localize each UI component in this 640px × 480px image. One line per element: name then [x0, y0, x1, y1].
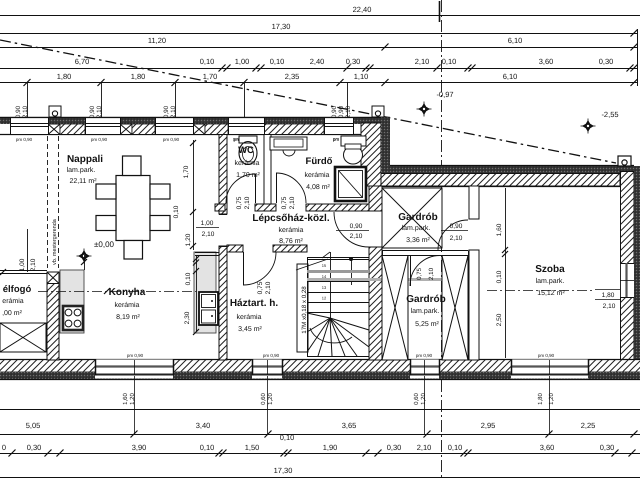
kitchen top edge lines near wall	[195, 252, 219, 254]
benchmark star -2,55	[581, 119, 596, 134]
svg-text:11,20: 11,20	[148, 36, 166, 45]
svg-text:15,12 m²: 15,12 m²	[537, 290, 565, 297]
svg-text:1,50: 1,50	[245, 443, 260, 452]
right edge extension line	[637, 29, 639, 86]
wall right of Nappali (x219)	[219, 135, 227, 215]
svg-text:2,10: 2,10	[30, 258, 37, 271]
svg-text:6,70: 6,70	[75, 57, 90, 66]
svg-text:2,10: 2,10	[289, 196, 296, 209]
walk line arc	[310, 328, 352, 343]
szoba dim line	[505, 188, 507, 358]
dimension chain row 4	[0, 68, 637, 70]
benchmark star -0,97	[417, 102, 432, 117]
svg-text:Fürdő: Fürdő	[306, 156, 333, 167]
stair side lines	[307, 257, 309, 356]
svg-text:14: 14	[322, 274, 327, 279]
svg-text:,00 m²: ,00 m²	[2, 310, 23, 317]
svg-text:kerámia: kerámia	[115, 301, 140, 309]
svg-text:kerámia: kerámia	[237, 313, 262, 321]
svg-text:0,75: 0,75	[416, 267, 423, 280]
dimension line 17,30 top	[0, 33, 637, 35]
svg-text:22,11 m²: 22,11 m²	[69, 178, 97, 185]
level star	[77, 249, 92, 264]
shower tray	[335, 167, 366, 201]
door size stack	[441, 230, 468, 232]
svg-text:17,30: 17,30	[274, 466, 293, 475]
left partial dim	[27, 229, 29, 272]
svg-text:2,10: 2,10	[428, 267, 435, 280]
svg-text:0,90: 0,90	[163, 105, 170, 118]
svg-text:0,30: 0,30	[600, 443, 615, 452]
svg-text:15: 15	[322, 263, 327, 268]
svg-text:0,60: 0,60	[260, 393, 267, 405]
svg-text:-2,55: -2,55	[601, 110, 618, 119]
svg-text:pm 0,90: pm 0,90	[91, 137, 108, 142]
svg-text:lam.park.: lam.park.	[402, 224, 431, 232]
svg-text:1,70: 1,70	[203, 72, 218, 81]
svg-text:1,20: 1,20	[420, 393, 427, 405]
door opening 1,00 in that wall	[219, 214, 227, 216]
svg-text:1,90: 1,90	[323, 443, 338, 452]
svg-text:1,20: 1,20	[267, 393, 274, 405]
svg-text:0,90: 0,90	[331, 105, 338, 118]
svg-text:2,10: 2,10	[603, 303, 616, 310]
svg-text:lam.park.: lam.park.	[411, 307, 440, 315]
door to Gardrob 3,36	[334, 212, 369, 247]
svg-text:3,65: 3,65	[342, 421, 357, 430]
dimension chain row 5	[0, 82, 637, 84]
svg-text:2,10: 2,10	[22, 105, 29, 118]
svg-text:élfogó: élfogó	[3, 284, 32, 295]
svg-text:5,05: 5,05	[26, 421, 41, 430]
timber posts in top wall	[48, 124, 60, 135]
door arc G336	[438, 220, 468, 250]
svg-text:0,10: 0,10	[173, 205, 180, 218]
svg-text:0,75: 0,75	[257, 281, 264, 294]
svg-text:Gardrób: Gardrób	[398, 212, 437, 223]
svg-text:0,10: 0,10	[200, 57, 215, 66]
WC toilet	[239, 136, 257, 143]
svg-text:0,30: 0,30	[599, 57, 614, 66]
svg-text:2,25: 2,25	[581, 421, 596, 430]
counter edge dim tick	[84, 255, 86, 270]
mestergerenda dashed beam lines	[47, 136, 49, 268]
svg-text:1,20: 1,20	[185, 233, 192, 246]
kitchen counters	[60, 270, 84, 333]
svg-text:2,10: 2,10	[96, 105, 103, 118]
svg-text:0,90: 0,90	[450, 223, 463, 230]
Konyha labels	[38, 291, 196, 293]
svg-text:0,30: 0,30	[387, 443, 402, 452]
stair east wall	[369, 186, 382, 211]
svg-text:5,25 m²: 5,25 m²	[415, 321, 439, 328]
konyha dim labels	[196, 255, 198, 332]
toilet	[341, 136, 366, 146]
Nappali/Szelfogo divider line	[0, 270, 47, 272]
svg-text:kerámia: kerámia	[279, 226, 304, 234]
svg-text:3,60: 3,60	[539, 57, 554, 66]
Furdo door	[276, 173, 278, 203]
bottom chain A	[0, 434, 640, 436]
svg-text:1,60: 1,60	[496, 223, 503, 236]
svg-text:Lépcsőház-közl.: Lépcsőház-közl.	[252, 213, 329, 224]
svg-text:0,10: 0,10	[280, 433, 295, 442]
stove	[63, 306, 83, 330]
sink	[199, 292, 218, 325]
section line vertical dash-dot	[441, 0, 443, 480]
dining table	[116, 176, 150, 241]
svg-text:pm 0,90: pm 0,90	[127, 353, 144, 358]
szoba window labels right	[595, 289, 620, 291]
svg-text:0,10: 0,10	[448, 443, 463, 452]
svg-text:0,10: 0,10	[200, 443, 215, 452]
Szelfogo closet with X	[0, 323, 46, 352]
washbasin	[270, 137, 307, 150]
svg-text:0,30: 0,30	[346, 57, 361, 66]
svg-text:13: 13	[322, 285, 327, 290]
svg-text:1,00: 1,00	[19, 258, 26, 271]
Gardrob 5,25 closets	[382, 256, 408, 361]
svg-text:1,80: 1,80	[57, 72, 72, 81]
downpipe symbol at NE corner of right wing	[618, 156, 631, 166]
svg-text:0,90: 0,90	[350, 223, 363, 230]
svg-text:2,10: 2,10	[170, 105, 177, 118]
svg-text:pm 0,90: pm 0,90	[538, 353, 555, 358]
nappali interior dim line	[193, 140, 195, 250]
downpipe symbol at NE corner of left wing	[372, 106, 384, 117]
stair label box 17M	[297, 264, 308, 352]
svg-text:±0,00: ±0,00	[94, 240, 115, 249]
right exterior wall	[621, 172, 635, 380]
bottom chain B	[0, 453, 640, 455]
svg-text:8,76 m²: 8,76 m²	[279, 238, 303, 245]
svg-text:1,60: 1,60	[122, 393, 129, 405]
dimension line 11,20 / 6,10	[0, 47, 637, 49]
svg-text:3,40: 3,40	[196, 421, 211, 430]
svg-text:0,10: 0,10	[442, 57, 457, 66]
svg-text:0,10: 0,10	[270, 57, 285, 66]
WC door	[255, 174, 257, 203]
svg-text:2,10: 2,10	[345, 105, 352, 118]
svg-text:2,30: 2,30	[184, 311, 191, 324]
svg-text:2,10: 2,10	[415, 57, 430, 66]
svg-text:2,40: 2,40	[310, 57, 325, 66]
dimension line 22,40	[0, 15, 640, 17]
svg-text:1,00: 1,00	[235, 57, 250, 66]
door 1,00/2,10 labels	[196, 227, 219, 229]
svg-text:22,40: 22,40	[353, 5, 372, 14]
door to Haztart	[243, 252, 245, 285]
svg-text:0,90: 0,90	[89, 105, 96, 118]
svg-text:0,75: 0,75	[281, 196, 288, 209]
svg-text:pm 0,90: pm 0,90	[263, 353, 280, 358]
svg-text:3,45 m²: 3,45 m²	[238, 326, 262, 333]
chairs	[123, 156, 142, 176]
svg-text:0,90: 0,90	[15, 105, 22, 118]
windows in bottom wall	[95, 360, 173, 379]
svg-text:lam.park.: lam.park.	[67, 166, 96, 174]
bottom line 17,30	[0, 477, 640, 479]
svg-text:Nappali: Nappali	[67, 154, 103, 165]
svg-text:4,08 m²: 4,08 m²	[306, 184, 330, 191]
Gardrob/Szoba wall	[469, 186, 479, 219]
stair break line	[296, 259, 328, 270]
extension lines below wall	[134, 376, 136, 434]
svg-text:1,10: 1,10	[354, 72, 369, 81]
svg-text:0: 0	[2, 443, 6, 452]
svg-text:0,10: 0,10	[496, 270, 503, 283]
svg-text:pm 0,90: pm 0,90	[16, 137, 33, 142]
bottom line y409	[0, 409, 640, 411]
gray level lines over stairs	[307, 270, 369, 273]
svg-text:2,10: 2,10	[417, 443, 432, 452]
stair treads	[307, 257, 369, 259]
svg-text:6,10: 6,10	[508, 36, 523, 45]
Gardrob divider wall y250	[382, 250, 468, 252]
windows in top wall	[10, 118, 48, 135]
svg-text:2,10: 2,10	[450, 235, 463, 242]
door in divider	[410, 256, 412, 287]
svg-text:Szoba: Szoba	[535, 264, 565, 275]
svg-text:17,30: 17,30	[272, 22, 291, 31]
szoba center dash-dot	[487, 290, 592, 292]
wall between Szelfogo and Konyha	[47, 272, 59, 284]
svg-text:-0,97: -0,97	[436, 90, 453, 99]
svg-text:17M x0,18 x 0,28: 17M x0,18 x 0,28	[301, 286, 308, 334]
svg-text:2,50: 2,50	[496, 313, 503, 326]
svg-text:erámia: erámia	[2, 297, 24, 305]
svg-text:pm 0,90: pm 0,90	[416, 353, 433, 358]
downpipe symbol top-left	[49, 106, 61, 117]
WC/Furdo partition	[264, 135, 271, 205]
svg-text:0,75: 0,75	[236, 196, 243, 209]
svg-text:2,10: 2,10	[244, 196, 251, 209]
svg-text:pm 0,90: pm 0,90	[163, 137, 180, 142]
window in right wall	[621, 263, 635, 297]
svg-text:2,10: 2,10	[265, 281, 272, 294]
svg-text:3,90: 3,90	[132, 443, 147, 452]
right wing top wall	[390, 166, 634, 174]
svg-text:2,35: 2,35	[285, 72, 300, 81]
svg-text:1,20: 1,20	[548, 393, 555, 405]
svg-text:lam.park.: lam.park.	[536, 277, 565, 285]
svg-text:Gardrób: Gardrób	[406, 294, 445, 305]
svg-text:1,80: 1,80	[131, 72, 146, 81]
top exterior wall band	[0, 117, 390, 119]
svg-text:2,95: 2,95	[481, 421, 496, 430]
svg-text:12: 12	[322, 296, 327, 301]
svg-text:Háztart. h.: Háztart. h.	[230, 298, 279, 309]
svg-text:1,20: 1,20	[129, 393, 136, 405]
svg-text:3,36 m²: 3,36 m²	[406, 237, 430, 244]
svg-text:0,10: 0,10	[185, 272, 192, 285]
WC/Furdo south wall	[215, 204, 225, 211]
roof slope dash-dot diagonal	[0, 40, 616, 163]
svg-text:vb. mestergerenda: vb. mestergerenda	[52, 218, 58, 265]
corridor/Haztart wall	[227, 245, 243, 252]
svg-text:1,70: 1,70	[183, 165, 190, 178]
svg-text:0,60: 0,60	[413, 393, 420, 405]
svg-text:1,00: 1,00	[201, 220, 214, 227]
svg-text:8,19 m²: 8,19 m²	[116, 314, 140, 321]
svg-text:2,10: 2,10	[202, 231, 215, 238]
bottom exterior wall band	[0, 359, 640, 372]
window extension lines to wall	[27, 83, 29, 118]
svg-text:kerámia: kerámia	[305, 171, 330, 179]
NE corner wall	[361, 123, 381, 186]
svg-text:0,30: 0,30	[27, 443, 42, 452]
svg-text:1,80: 1,80	[602, 292, 615, 299]
Gardrob 3,36 closet X	[382, 188, 442, 248]
svg-text:2,10: 2,10	[350, 233, 363, 240]
svg-text:kerámia: kerámia	[235, 159, 260, 167]
svg-text:3,60: 3,60	[540, 443, 555, 452]
winder steps radiating	[307, 313, 330, 318]
svg-text:6,10: 6,10	[503, 72, 518, 81]
svg-text:1,80: 1,80	[537, 393, 544, 405]
svg-text:Konyha: Konyha	[109, 287, 146, 298]
